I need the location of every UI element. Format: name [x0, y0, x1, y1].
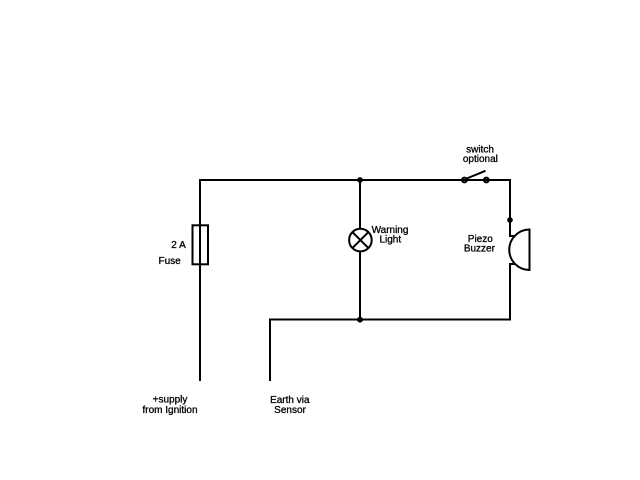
svg-text:Sensor: Sensor: [274, 405, 306, 416]
node junction dot buzzer pin: [507, 217, 513, 223]
lamp warning light: [349, 229, 372, 252]
wire right vertical lower (buzzer to earth rail): [509, 264, 511, 321]
switch contact circle right: [484, 178, 489, 183]
svg-text:Light: Light: [379, 235, 401, 246]
svg-text:from Ignition: from Ignition: [142, 405, 197, 416]
buzzer stub bottom: [509, 263, 516, 265]
piezo buzzer body: [509, 230, 529, 271]
svg-text:optional: optional: [463, 154, 498, 165]
wire bottom horizontal (earth rail): [270, 319, 510, 321]
svg-text:Fuse: Fuse: [159, 256, 182, 267]
node junction dot at lamp bottom: [357, 317, 363, 323]
wire lamp branch lower: [359, 251, 361, 321]
svg-text:Buzzer: Buzzer: [464, 244, 496, 255]
node junction dot at lamp top: [357, 177, 363, 183]
wire right vertical upper (to buzzer): [509, 179, 511, 237]
wire lamp branch upper: [359, 180, 361, 230]
switch contact circle left: [462, 178, 467, 183]
wire left vertical (+supply lead through fuse): [199, 179, 201, 381]
buzzer stub top: [509, 235, 516, 237]
fuse 2A body: [193, 225, 209, 264]
wire top horizontal from fuse branch to switch/buzzer branch: [200, 179, 510, 181]
wire earth lead vertical: [269, 319, 271, 382]
switch arm: [466, 171, 486, 179]
svg-text:2 A: 2 A: [171, 240, 186, 251]
